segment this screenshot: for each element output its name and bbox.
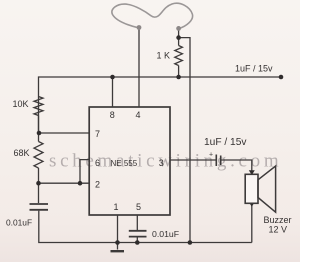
svg-text:NE 555: NE 555: [111, 159, 138, 168]
svg-text:10K: 10K: [13, 99, 29, 109]
svg-text:0.01uF: 0.01uF: [6, 218, 32, 228]
svg-text:3: 3: [159, 158, 164, 168]
svg-text:68K: 68K: [14, 148, 30, 158]
svg-text:5: 5: [136, 202, 141, 212]
svg-text:schematicwiring.com: schematicwiring.com: [49, 151, 282, 172]
svg-text:1 K: 1 K: [157, 51, 171, 61]
svg-text:8: 8: [110, 110, 115, 120]
svg-text:+: +: [209, 152, 213, 159]
svg-text:2: 2: [95, 180, 100, 190]
svg-text:0.01uF: 0.01uF: [152, 229, 179, 239]
svg-text:6: 6: [95, 158, 100, 168]
svg-text:1uF / 15v: 1uF / 15v: [235, 64, 273, 74]
svg-text:7: 7: [95, 129, 100, 139]
svg-text:1uF / 15v: 1uF / 15v: [204, 137, 247, 148]
svg-text:12 V: 12 V: [269, 225, 288, 235]
svg-text:4: 4: [136, 110, 141, 120]
svg-text:1: 1: [114, 202, 119, 212]
svg-text:Buzzer: Buzzer: [264, 215, 292, 225]
